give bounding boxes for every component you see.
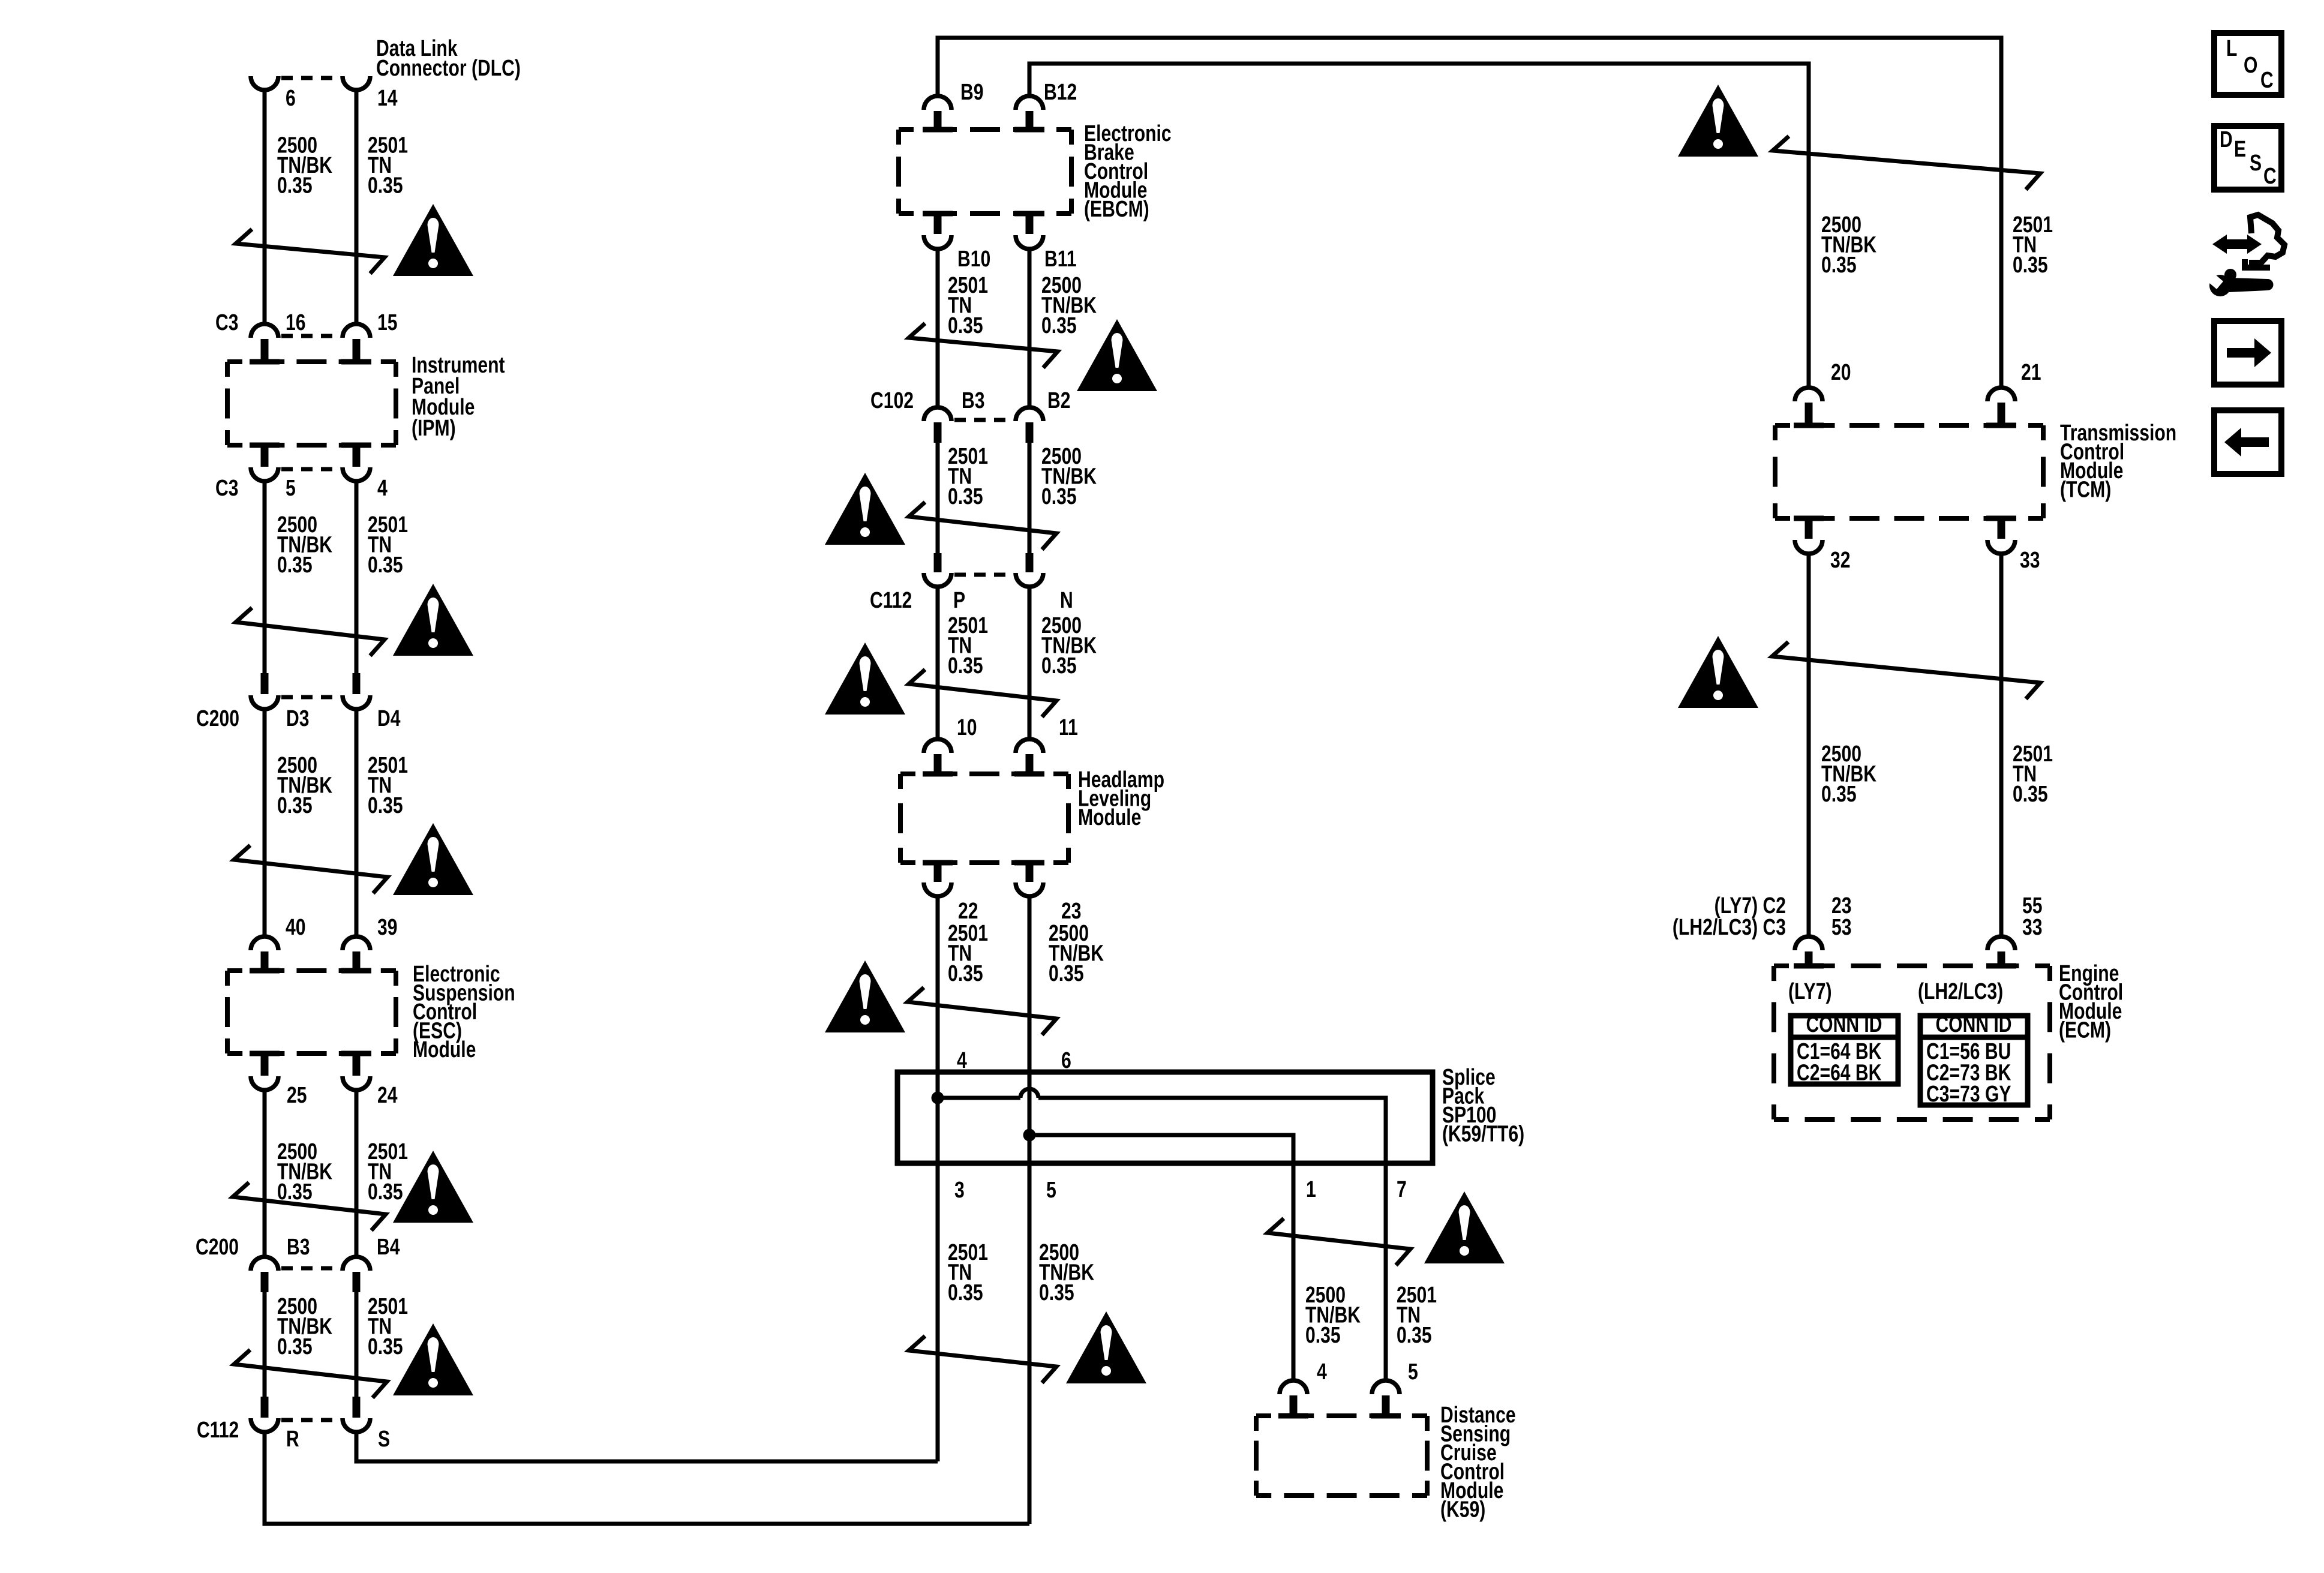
svg-text:4: 4 (377, 476, 388, 501)
svg-text:C3=73 GY: C3=73 GY (1926, 1082, 2011, 1107)
pin stub ESC 40 (261, 951, 269, 971)
svg-text:10: 10 (957, 715, 977, 740)
warning triangle (393, 204, 473, 276)
warning triangle (825, 473, 905, 545)
connector dome IPM pin 16 (251, 324, 278, 338)
svg-text:B3: B3 (962, 388, 985, 413)
connector dome DSCC pin 5 (1372, 1380, 1400, 1394)
svg-text:C200: C200 (196, 706, 239, 731)
svg-text:25: 25 (287, 1083, 307, 1108)
svg-text:0.35: 0.35 (1041, 653, 1077, 679)
connector dome EBCM pin B9 (924, 96, 951, 110)
wire 2500 TN/BK C102-B2 to C112-N (1028, 440, 1032, 554)
wire 2501 TN HLM-22 through splice pin 4 to pin 3 (936, 896, 940, 1461)
wire 2500 TN/BK EBCM-B11 to C102-B2 (1028, 248, 1032, 407)
svg-text:0.35: 0.35 (948, 484, 983, 509)
off-page break symbol (236, 229, 385, 274)
warning triangle (1678, 85, 1758, 157)
icon box LOC (2214, 33, 2281, 95)
svg-text:C112: C112 (870, 588, 912, 613)
connector dome C200 pin B4 (343, 1257, 370, 1271)
pin stub ECM right (1998, 951, 2005, 966)
warning triangle (825, 960, 905, 1032)
pin stub TCM 32 (1805, 518, 1813, 539)
svg-text:D4: D4 (377, 706, 401, 731)
svg-text:0.35: 0.35 (1041, 313, 1077, 338)
connector cup IPM pin 5 (251, 467, 278, 481)
connector cup HLM pin 22 (924, 882, 951, 896)
pin stub HLM 23 (1026, 863, 1034, 882)
svg-text:(K59/TT6): (K59/TT6) (1442, 1122, 1524, 1147)
icon double arrow (2212, 235, 2262, 254)
warning triangle (1066, 1311, 1146, 1383)
connector C200 dashed body lower (281, 1266, 340, 1271)
connector cup ESC pin 25 (251, 1076, 278, 1090)
connector dome HLM pin 11 (1016, 739, 1043, 753)
connector cup DLC pin 6 (251, 76, 278, 90)
connector dome TCM pin 21 (1987, 388, 2015, 401)
off-page break symbol (236, 608, 385, 656)
off-page break symbol (909, 1336, 1056, 1383)
svg-text:0.35: 0.35 (368, 1179, 403, 1205)
wire 2500 TN/BK IPM-5 to C200-D3 (263, 480, 267, 674)
svg-text:3: 3 (954, 1178, 965, 1203)
svg-text:0.35: 0.35 (2013, 782, 2048, 807)
icon box DESC (2214, 126, 2281, 190)
svg-text:0.35: 0.35 (277, 553, 313, 578)
pin stub C112 N (1026, 553, 1034, 572)
warning triangle (393, 1323, 473, 1395)
warning triangle (825, 643, 905, 715)
off-page break symbol (909, 502, 1056, 550)
svg-text:4: 4 (1317, 1359, 1327, 1385)
warning triangle (1678, 636, 1758, 708)
pin stub TCM 33 (1998, 518, 2005, 539)
svg-text:(LH2/LC3): (LH2/LC3) (1918, 979, 2003, 1004)
wire 2500 TN/BK TCM-32 to ECM (1807, 553, 1811, 936)
svg-text:(ECM): (ECM) (2059, 1018, 2111, 1043)
svg-text:B4: B4 (377, 1235, 400, 1260)
warning triangle (1077, 319, 1157, 391)
connector dome ECM pin 55/33 (1987, 936, 2015, 950)
pin stub EBCM B11 (1026, 214, 1034, 234)
off-page break symbol (909, 670, 1056, 717)
svg-text:40: 40 (286, 915, 306, 940)
icon box arrow left (2214, 410, 2281, 474)
connector dome DSCC pin 4 (1280, 1380, 1307, 1394)
connector C3 dashed body lower (281, 467, 340, 472)
svg-text:5: 5 (1046, 1178, 1056, 1203)
module box Electronic Suspension Control (ESC) Module (227, 968, 396, 973)
pin stub C112 P (934, 553, 942, 572)
svg-text:0.35: 0.35 (1305, 1323, 1341, 1348)
connector cup EBCM pin B10 (924, 235, 951, 249)
wire 2501 TN splice-7 to DSCC-5 (1384, 1166, 1388, 1380)
svg-text:14: 14 (377, 86, 398, 111)
connector cup DLC pin 14 (343, 76, 370, 90)
wire 2500 TN/BK C112-N to HLM-11 (1028, 586, 1032, 739)
svg-text:0.35: 0.35 (948, 313, 983, 338)
svg-text:0.35: 0.35 (1049, 961, 1084, 986)
pin stub HLM 10 (934, 754, 942, 774)
pin stub C102 B3 (934, 422, 942, 443)
warning triangle (393, 584, 473, 656)
pin stub IPM 4 (353, 448, 361, 467)
svg-text:N: N (1060, 588, 1073, 613)
svg-text:S: S (378, 1427, 390, 1452)
connector dome ESC pin 40 (251, 936, 278, 950)
svg-text:CONN ID: CONN ID (1806, 1012, 1882, 1037)
connector dome C102 pin B2 (1016, 407, 1043, 421)
connector cup EBCM pin B11 (1016, 235, 1043, 249)
svg-text:0.35: 0.35 (1041, 484, 1077, 509)
off-page break symbol (908, 987, 1056, 1035)
wire 2500 TN/BK DLC-6 to IPM-16 (263, 90, 267, 324)
svg-text:0.35: 0.35 (1821, 782, 1857, 807)
svg-text:B11: B11 (1044, 247, 1077, 272)
wire 2501 TN DLC-14 to IPM-15 (355, 90, 359, 324)
wire 2501 TN EBCM-B10 to C102-B3 (936, 248, 940, 407)
wire 2501 TN C200-D4 to ESC-39 (355, 708, 359, 936)
connector C3 dashed body (281, 334, 340, 338)
svg-text:7: 7 (1397, 1177, 1407, 1202)
svg-text:C3: C3 (215, 310, 239, 335)
connector dome HLM pin 10 (924, 739, 951, 753)
pin stub DSCC 5 (1382, 1395, 1390, 1416)
svg-text:(TCM): (TCM) (2060, 478, 2111, 503)
svg-text:15: 15 (377, 310, 398, 335)
svg-text:(IPM): (IPM) (412, 416, 456, 441)
pin stub C102 B2 (1026, 422, 1034, 443)
svg-text:Module: Module (413, 1037, 476, 1062)
svg-text:0.35: 0.35 (368, 793, 403, 818)
connector dome ESC pin 39 (343, 936, 370, 950)
connector cup C200 pin D4 (343, 695, 370, 709)
svg-text:0.35: 0.35 (948, 1280, 983, 1305)
module box Engine Control Module (ECM) (1774, 963, 2050, 968)
pin stub HLM 22 (934, 863, 942, 882)
svg-text:D3: D3 (286, 706, 310, 731)
connector cup TCM pin 32 (1795, 540, 1822, 554)
CONN ID table LY7 (1791, 1016, 1898, 1084)
svg-text:20: 20 (1831, 360, 1851, 385)
svg-text:0.35: 0.35 (277, 793, 313, 818)
svg-text:0.35: 0.35 (368, 553, 403, 578)
pin stub DSCC 4 (1290, 1395, 1298, 1416)
wire 2501 TN C200-B4 to C112-S (355, 1290, 359, 1398)
pin stub TCM 20 (1805, 403, 1813, 425)
connector dome C102 pin B3 (924, 407, 951, 421)
warning triangle (393, 1151, 473, 1223)
connector cup TCM pin 33 (1987, 540, 2015, 554)
icon box arrow right (2214, 321, 2281, 385)
svg-text:C200: C200 (196, 1235, 239, 1260)
connector dome EBCM pin B12 (1016, 96, 1043, 110)
svg-text:B12: B12 (1044, 80, 1077, 105)
svg-text:32: 32 (1830, 548, 1851, 573)
svg-text:53: 53 (1831, 915, 1852, 940)
svg-text:S: S (2250, 151, 2262, 176)
connector dome C200 pin B3 (251, 1257, 278, 1271)
svg-text:6: 6 (286, 86, 296, 111)
pin stub IPM 15 (353, 339, 361, 359)
svg-text:(K59): (K59) (1440, 1497, 1485, 1523)
pin stub TCM 21 (1998, 403, 2005, 425)
connector cup IPM pin 4 (343, 467, 370, 481)
off-page break symbol (1268, 1218, 1410, 1265)
svg-text:0.35: 0.35 (2013, 253, 2048, 278)
svg-text:C2=64 BK: C2=64 BK (1797, 1061, 1882, 1086)
module box Instrument Panel Module (IPM) (227, 359, 396, 364)
connector cup C200 pin D3 (251, 695, 278, 709)
svg-text:L: L (2226, 36, 2237, 61)
wire 2501 TN IPM-4 to C200-D4 (355, 480, 359, 674)
module box Headlamp Leveling Module (900, 772, 1068, 776)
connector cup C112 pin S (343, 1418, 370, 1432)
pin stub HLM 11 (1026, 754, 1034, 774)
svg-text:0.35: 0.35 (948, 653, 983, 679)
pin stub C200 B3 (261, 1272, 269, 1292)
svg-text:5: 5 (1408, 1359, 1418, 1385)
svg-text:D: D (2220, 127, 2233, 152)
svg-text:33: 33 (2022, 915, 2043, 940)
connector C200 dashed body (281, 695, 340, 700)
svg-text:5: 5 (286, 476, 296, 501)
svg-text:B2: B2 (1047, 388, 1071, 413)
wire 2500 TN/BK C112-R to splice pin 5 (265, 1431, 1029, 1524)
svg-text:21: 21 (2021, 360, 2041, 385)
pin stub IPM 16 (261, 339, 269, 359)
splice junction dot on 2500 TN/BK (1023, 1129, 1036, 1142)
connector cup C112 pin P (924, 573, 951, 587)
svg-text:0.35: 0.35 (277, 1334, 313, 1359)
connector dome TCM pin 20 (1795, 388, 1822, 401)
pin stub C200 D3 (261, 673, 269, 694)
splice bus wire 2501 TN to pin 7 (938, 1098, 1386, 1166)
splice bus wire 2500 TN/BK to pin 1 (1029, 1135, 1293, 1166)
svg-text:0.35: 0.35 (368, 173, 403, 199)
svg-text:1: 1 (1306, 1177, 1316, 1202)
connector C112 dashed body middle (954, 573, 1013, 577)
svg-text:B3: B3 (287, 1235, 310, 1260)
warning triangle (1424, 1191, 1505, 1263)
wire 2500 TN/BK HLM-23 through splice pin 6 to pin 5 (1028, 896, 1032, 1524)
off-page break symbol (234, 845, 388, 893)
svg-text:C112: C112 (197, 1418, 239, 1443)
off-page break symbol (909, 323, 1058, 368)
connector dome ECM pin 23/53 (1795, 936, 1822, 950)
pin stub ESC 25 (261, 1056, 269, 1076)
pin stub C112 R (261, 1397, 269, 1418)
svg-text:0.35: 0.35 (948, 961, 983, 986)
svg-text:C3: C3 (215, 476, 239, 501)
svg-text:B10: B10 (957, 247, 990, 272)
svg-text:C102: C102 (870, 388, 914, 413)
connector cup C112 pin R (251, 1418, 278, 1432)
svg-text:(LH2/LC3) C3: (LH2/LC3) C3 (1673, 915, 1786, 940)
connector dome IPM pin 15 (343, 324, 370, 338)
wire 2501 TN C112-P to HLM-10 (936, 586, 940, 739)
svg-text:C: C (2260, 68, 2274, 93)
svg-text:0.35: 0.35 (368, 1334, 403, 1359)
svg-text:0.35: 0.35 (1821, 253, 1857, 278)
wire 2500 TN/BK splice-1 to DSCC-4 (1292, 1166, 1296, 1380)
pin stub IPM 5 (261, 448, 269, 467)
connector C102 dashed body (954, 418, 1013, 422)
wire 2501 TN EBCM-B9 to TCM-21 (938, 38, 2001, 388)
svg-text:R: R (286, 1427, 299, 1452)
wire 2501 TN ESC-24 to C200-B4 (355, 1089, 359, 1257)
connector C112 dashed body (281, 1418, 340, 1422)
svg-text:CONN ID: CONN ID (1935, 1012, 2011, 1037)
svg-text:0.35: 0.35 (1397, 1323, 1432, 1348)
wire 2500 TN/BK ESC-25 to C200-B3 (263, 1089, 267, 1257)
off-page break symbol (233, 1182, 386, 1230)
module box Transmission Control Module (TCM) (1775, 423, 2043, 428)
wire 2500 TN/BK EBCM-B12 to TCM-20 (1029, 64, 1809, 388)
svg-text:E: E (2234, 137, 2246, 162)
wire 2501 TN C112-S to splice pin 3 (356, 1431, 938, 1461)
svg-text:22: 22 (958, 899, 978, 924)
CONN ID table LH2/LC3 (1920, 1016, 2028, 1105)
svg-text:11: 11 (1059, 715, 1078, 740)
wire 2500 TN/BK C200-D3 to ESC-40 (263, 708, 267, 936)
icon harness outline (2249, 215, 2284, 263)
pin stub EBCM B12 (1026, 111, 1034, 130)
pin stub C200 B4 (353, 1272, 361, 1292)
connector DLC dashed body (281, 76, 340, 80)
svg-text:O: O (2244, 53, 2257, 78)
svg-text:0.35: 0.35 (1039, 1280, 1074, 1305)
pin stub EBCM B9 (934, 111, 942, 130)
pin stub ECM left (1805, 951, 1813, 966)
svg-text:P: P (953, 588, 965, 613)
svg-text:16: 16 (286, 310, 306, 335)
svg-text:33: 33 (2020, 548, 2040, 573)
svg-text:Module: Module (1078, 805, 1141, 830)
pin stub EBCM B10 (934, 214, 942, 234)
icon wrench (2209, 275, 2231, 296)
connector cup HLM pin 23 (1016, 882, 1043, 896)
svg-text:(EBCM): (EBCM) (1084, 197, 1149, 222)
svg-text:C: C (2263, 164, 2277, 189)
module box Distance Sensing Cruise Control Module (K59) (1256, 1413, 1427, 1418)
splice pack SP100 box (897, 1072, 1433, 1163)
off-page break symbol (1772, 642, 2040, 699)
wire 2500 TN/BK C200-B3 to C112-R (263, 1290, 267, 1398)
pin stub C112 S (353, 1397, 361, 1418)
pin stub ESC 39 (353, 951, 361, 971)
svg-text:B9: B9 (960, 80, 984, 105)
wire 2501 TN TCM-33 to ECM (1999, 553, 2004, 936)
connector cup ESC pin 24 (343, 1076, 370, 1090)
svg-text:0.35: 0.35 (277, 173, 313, 199)
wire 2501 TN C102-B3 to C112-P (936, 440, 940, 554)
svg-text:23: 23 (1061, 899, 1082, 924)
svg-text:39: 39 (377, 915, 398, 940)
splice junction dot on 2501 TN (932, 1092, 944, 1104)
wire hop over 2500 TN/BK (1020, 1089, 1038, 1098)
svg-text:24: 24 (377, 1083, 398, 1108)
connector cup C112 pin N (1016, 573, 1043, 587)
svg-text:Connector (DLC): Connector (DLC) (376, 56, 521, 81)
off-page break symbol (234, 1350, 387, 1398)
svg-text:(LY7): (LY7) (1788, 979, 1832, 1004)
pin stub ESC 24 (353, 1056, 361, 1076)
off-page break symbol (1773, 136, 2040, 190)
warning triangle (393, 823, 473, 895)
module box Electronic Brake Control Module (EBCM) (899, 127, 1071, 132)
pin stub C200 D4 (353, 673, 361, 694)
